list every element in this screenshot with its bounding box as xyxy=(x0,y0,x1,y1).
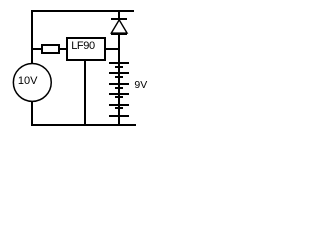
wire resistor tap horizontal xyxy=(31,48,41,50)
wire resistor to LF90 xyxy=(60,48,67,50)
battery BT1 long plate 1 xyxy=(109,62,129,64)
resistor R1 xyxy=(41,44,60,54)
wire right vertical (diode to bottom rail through battery) xyxy=(118,35,120,126)
battery BT1 short plate 5 xyxy=(115,107,123,109)
wire top horizontal xyxy=(31,10,134,12)
diode D1 cathode bar xyxy=(111,18,127,20)
battery BT1 long plate 3 xyxy=(109,83,129,85)
wire diode stub from top wire xyxy=(118,11,120,18)
battery BT1 long plate 4 xyxy=(109,93,129,95)
battery BT1 long plate 5 xyxy=(109,104,129,106)
battery BT1 short plate 2 xyxy=(115,76,123,78)
wire source bottom vertical xyxy=(31,102,33,126)
label 9V xyxy=(134,80,147,91)
diode D1 triangle xyxy=(0,0,156,134)
label 10V xyxy=(18,76,38,87)
battery BT1 short plate 4 xyxy=(115,96,123,98)
diode D1 base bar xyxy=(111,33,127,35)
wire bottom horizontal rail xyxy=(31,124,136,126)
wire LF90 output horizontal xyxy=(105,48,118,50)
wire LF90 bottom vertical to ground rail xyxy=(84,60,86,124)
battery BT1 short plate 3 xyxy=(115,87,123,89)
wire left vertical (top wire to source V1 top) xyxy=(31,10,33,63)
op-amp U1 box LF90 xyxy=(66,37,106,61)
battery BT1 long plate 6 xyxy=(109,115,129,117)
battery BT1 short plate 1 xyxy=(115,66,123,68)
label LF90 xyxy=(71,41,94,52)
voltage source V1 circle xyxy=(0,0,156,134)
battery BT1 long plate 2 xyxy=(109,72,129,74)
